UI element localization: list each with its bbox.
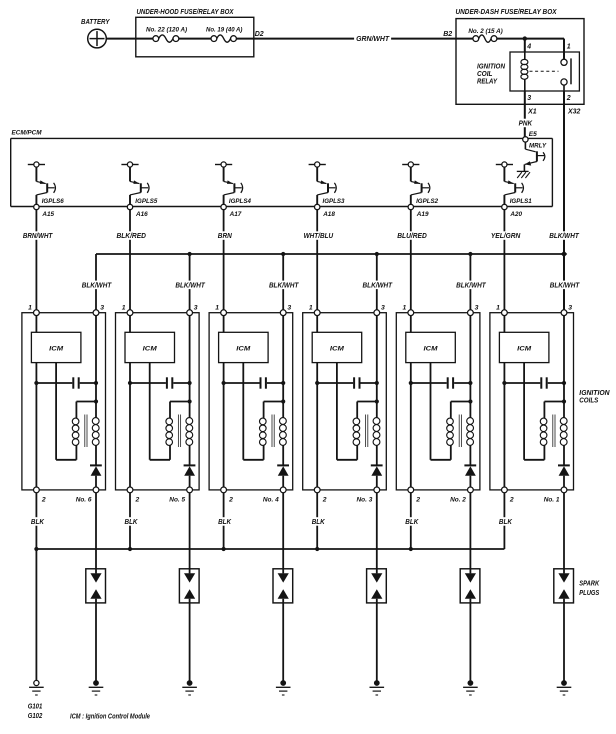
junction capacitor left (unit 3)	[315, 381, 319, 385]
wire A18 to coil No.3 pin 1, WHT/BLU	[316, 210, 318, 310]
capacitor C1	[504, 377, 564, 388]
wire secondary to diode (unit 5)	[189, 445, 191, 464]
svg-text:BLK/WHT: BLK/WHT	[456, 280, 487, 289]
svg-text:No. 22 (120 A): No. 22 (120 A)	[146, 27, 187, 34]
wire label BLK	[29, 517, 46, 526]
svg-text:A20: A20	[509, 211, 522, 218]
wire secondary to diode (unit 1)	[563, 445, 565, 464]
svg-text:RELAY: RELAY	[477, 79, 498, 86]
transformer secondary winding (unit 1)	[560, 418, 567, 446]
relay pin 4	[526, 43, 531, 50]
wire ICM output to primary (unit 4)	[243, 363, 263, 460]
svg-text:BLK: BLK	[218, 517, 231, 526]
junction primary/secondary split (unit 2)	[468, 399, 472, 403]
junction capacitor right (unit 3)	[375, 381, 379, 385]
svg-text:No. 1: No. 1	[544, 497, 560, 504]
coil pin No. 1 (unit 1)	[544, 487, 567, 504]
wire spark plug to ground (cyl 1)	[563, 599, 565, 683]
junction node	[523, 36, 527, 40]
BLK/WHT bus wire	[96, 254, 564, 310]
transformer core (unit 6)	[85, 415, 87, 448]
diode D2	[464, 465, 476, 487]
relay contact	[561, 58, 571, 91]
svg-text:ICM: ICM	[143, 346, 157, 353]
wire ICM output to primary (unit 2)	[431, 363, 451, 460]
svg-text:IGPLS1: IGPLS1	[510, 198, 532, 205]
svg-text:2: 2	[415, 497, 420, 504]
coil pin 2 (unit 1)	[502, 487, 514, 504]
junction capacitor right (unit 5)	[188, 381, 192, 385]
wire secondary to diode (unit 3)	[376, 445, 378, 464]
wire pin3 feed (unit 1)	[563, 316, 565, 418]
wire BLK/WHT drop to coil No.3 pin 3	[375, 252, 379, 310]
svg-text:YEL/GRN: YEL/GRN	[491, 231, 521, 240]
wire pin3 feed (unit 3)	[376, 316, 378, 418]
svg-text:4: 4	[526, 43, 531, 50]
wire pin1 to ICM and pin2 (unit 4)	[223, 316, 225, 487]
svg-text:BLK: BLK	[31, 517, 44, 526]
wire pin3 feed (unit 2)	[469, 316, 471, 418]
wire BLK/WHT drop to coil No.2 pin 3	[468, 252, 472, 310]
wire split to primary top (unit 2)	[451, 402, 471, 419]
svg-text:No. 2: No. 2	[450, 497, 466, 504]
wire pin1 to ICM and pin2 (unit 3)	[316, 316, 318, 487]
wire coil pin2 to BLK bus, BLK (unit 3)	[316, 493, 318, 549]
wire label BLU/RED	[395, 231, 429, 240]
svg-text:2: 2	[228, 497, 233, 504]
ICM module (unit 6)	[31, 332, 81, 362]
wire spark plug to ground (cyl 3)	[376, 599, 378, 683]
wire label BLK	[403, 517, 420, 526]
transformer primary winding (unit 6)	[72, 418, 79, 445]
svg-text:2: 2	[509, 497, 514, 504]
svg-text:1: 1	[309, 304, 313, 311]
wire bus to ground G101/G102	[35, 549, 37, 680]
connector X1	[527, 109, 537, 116]
wire pin3 feed (unit 5)	[189, 316, 191, 418]
coil pin 1 (unit 3)	[309, 304, 320, 315]
svg-text:IGPLS5: IGPLS5	[135, 198, 157, 205]
coil pin No. 2 (unit 2)	[450, 487, 473, 504]
battery	[81, 19, 111, 48]
svg-text:E5: E5	[529, 131, 537, 138]
svg-text:No. 19 (40 A): No. 19 (40 A)	[206, 27, 242, 34]
ignition coil unit No.3 box	[303, 313, 387, 490]
wire fuse to relay pins	[497, 39, 564, 60]
svg-text:A19: A19	[416, 211, 429, 218]
wire relay pin2 to ignition coils, BLK/WHT	[563, 91, 565, 313]
svg-text:1: 1	[122, 304, 126, 311]
svg-text:PNK: PNK	[519, 118, 533, 127]
svg-text:1: 1	[215, 304, 219, 311]
junction capacitor left (unit 4)	[222, 381, 226, 385]
label G102	[28, 711, 43, 720]
spark plug (cyl 4)	[273, 569, 293, 603]
svg-text:BLK: BLK	[499, 517, 512, 526]
svg-text:ICM: ICM	[49, 346, 63, 353]
svg-text:IGNITION: IGNITION	[579, 390, 610, 397]
diode D5	[184, 465, 196, 487]
node A16 (ECM pin)	[127, 204, 148, 218]
svg-text:A15: A15	[41, 211, 54, 218]
relay pin 2	[566, 95, 571, 102]
under-dash fuse/relay box	[456, 9, 585, 104]
wire coil pin2 to BLK bus, BLK (unit 5)	[129, 493, 131, 549]
coil pin 1 (unit 4)	[215, 304, 226, 315]
svg-text:1: 1	[567, 43, 571, 50]
wire coil No.3 output to spark plug	[376, 493, 378, 574]
svg-text:2: 2	[41, 497, 46, 504]
junction BLK bus	[128, 547, 132, 551]
transistor IGPLS4	[215, 162, 251, 205]
transformer primary winding (unit 4)	[260, 418, 267, 445]
wire pin1 to ICM and pin2 (unit 6)	[35, 316, 37, 487]
svg-text:BLK/RED: BLK/RED	[116, 231, 146, 240]
svg-text:BLK/WHT: BLK/WHT	[549, 231, 580, 240]
wire coil No.1 output to spark plug	[563, 493, 565, 574]
wire ICM output to primary (unit 5)	[150, 363, 170, 460]
junction primary/secondary split (unit 3)	[375, 399, 379, 403]
junction capacitor left (unit 2)	[409, 381, 413, 385]
svg-text:G101: G101	[28, 702, 43, 711]
junction primary/secondary split (unit 1)	[562, 399, 566, 403]
ground (spark plug cyl 2)	[463, 680, 478, 695]
wire BLK/WHT drop to coil No.4 pin 3	[281, 252, 285, 310]
connector X32	[567, 109, 581, 116]
junction capacitor right (unit 2)	[468, 381, 472, 385]
node A18 (ECM pin)	[315, 204, 336, 218]
ignition coil unit No.4 box	[209, 313, 293, 490]
transformer secondary winding (unit 3)	[373, 418, 380, 446]
wire coil No.5 output to spark plug	[189, 493, 191, 574]
coil pin 1 (unit 5)	[122, 304, 133, 315]
svg-text:A16: A16	[135, 211, 148, 218]
junction primary/secondary split (unit 5)	[188, 399, 192, 403]
coil pin 1 (unit 1)	[496, 304, 507, 315]
junction capacitor right (unit 6)	[94, 381, 98, 385]
wire label BLK	[123, 517, 140, 526]
wire label BLK	[497, 517, 514, 526]
transformer secondary winding (unit 4)	[280, 418, 287, 446]
svg-text:D2: D2	[255, 31, 264, 38]
wire A20 to coil No.1 pin 1, YEL/GRN	[503, 210, 505, 310]
transistor IGPLS5	[121, 162, 157, 205]
svg-text:IGPLS3: IGPLS3	[323, 198, 345, 205]
ICM module (unit 3)	[312, 332, 362, 362]
junction (bus to X32 wire)	[561, 251, 567, 257]
diode D4	[277, 465, 289, 487]
wire pin1 to ICM and pin2 (unit 1)	[503, 316, 505, 487]
node A19 (ECM pin)	[408, 204, 429, 218]
wire spark plug to ground (cyl 5)	[189, 599, 191, 683]
wire D2 to B2, GRN/WHT	[236, 38, 456, 40]
spark plug (cyl 6)	[86, 569, 106, 603]
coil pin No. 5 (unit 5)	[169, 487, 192, 504]
ICM module (unit 5)	[125, 332, 175, 362]
coil pin No. 3 (unit 3)	[357, 487, 380, 504]
spark plug (cyl 3)	[367, 569, 387, 603]
svg-text:BRN: BRN	[218, 231, 233, 240]
svg-text:1: 1	[403, 304, 407, 311]
wire spark plug to ground (cyl 2)	[469, 599, 471, 683]
wire battery to under-hood box	[106, 38, 153, 40]
label IGNITION COILS	[579, 390, 610, 404]
svg-text:BRN/WHT: BRN/WHT	[23, 231, 54, 240]
svg-text:COILS: COILS	[579, 398, 598, 405]
junction capacitor left (unit 6)	[34, 381, 38, 385]
spark plug (cyl 1)	[554, 569, 574, 603]
wire pin1 to ICM and pin2 (unit 2)	[410, 316, 412, 487]
wire secondary to diode (unit 6)	[95, 445, 97, 464]
capacitor C5	[130, 377, 190, 388]
transformer core (unit 1)	[553, 415, 555, 448]
capacitor C6	[36, 377, 96, 388]
transformer primary winding (unit 1)	[540, 418, 547, 445]
svg-text:BLU/RED: BLU/RED	[397, 231, 427, 240]
wire coil No.2 output to spark plug	[469, 493, 471, 574]
wire spark plug to ground (cyl 4)	[282, 599, 284, 683]
coil pin 1 (unit 6)	[28, 304, 39, 315]
transformer secondary winding (unit 6)	[92, 418, 99, 446]
ICM module (unit 2)	[406, 332, 456, 362]
svg-text:3: 3	[287, 304, 291, 311]
relay actuation dashed link	[530, 70, 559, 72]
svg-text:ICM: ICM	[236, 346, 250, 353]
wire label PNK	[517, 118, 535, 127]
ground (MRLY chassis)	[517, 171, 530, 178]
wire ICM output to primary (unit 1)	[524, 363, 544, 460]
wire into No.2 fuse	[456, 38, 473, 40]
svg-text:IGPLS6: IGPLS6	[42, 198, 64, 205]
wire label BLK/RED	[114, 231, 147, 240]
diode D3	[371, 465, 383, 487]
fuse No.22 (120 A)	[146, 27, 187, 43]
wire pin3 feed (unit 4)	[282, 316, 284, 418]
svg-text:BLK: BLK	[125, 517, 138, 526]
transformer secondary winding (unit 2)	[467, 418, 474, 446]
spark plug (cyl 5)	[179, 569, 199, 603]
svg-text:WHT/BLU: WHT/BLU	[304, 231, 334, 240]
coil pin 3 (unit 3)	[374, 304, 385, 315]
transistor IGPLS1	[496, 162, 532, 205]
diode D1	[558, 465, 570, 487]
svg-text:No. 4: No. 4	[263, 497, 279, 504]
wire label BLK/WHT	[173, 280, 207, 289]
wire ICM output to primary (unit 3)	[337, 363, 357, 460]
svg-text:BLK/WHT: BLK/WHT	[175, 280, 206, 289]
ignition coil unit No.5 box	[116, 313, 200, 490]
svg-text:A18: A18	[322, 211, 335, 218]
wire secondary to diode (unit 4)	[282, 445, 284, 464]
wire coil pin2 to BLK bus, BLK (unit 2)	[410, 493, 412, 549]
ground (spark plug cyl 1)	[557, 680, 572, 695]
svg-text:No. 5: No. 5	[169, 497, 185, 504]
transformer primary winding (unit 3)	[353, 418, 360, 445]
wire pin1 to ICM and pin2 (unit 5)	[129, 316, 131, 487]
wire A17 to coil No.4 pin 1, BRN	[223, 210, 225, 310]
legend ICM	[70, 713, 150, 720]
wire label BLK/WHT	[267, 280, 301, 289]
wire label BLK/WHT (from X32)	[547, 231, 581, 240]
transformer core (unit 5)	[178, 415, 180, 448]
svg-text:GRN/WHT: GRN/WHT	[356, 34, 390, 43]
coil pin 2 (unit 5)	[127, 487, 139, 504]
ground (spark plug cyl 3)	[370, 680, 385, 695]
under-hood fuse/relay box	[136, 9, 254, 57]
svg-text:ICM: ICM	[424, 346, 438, 353]
wire coil pin2 to BLK bus, BLK (unit 1)	[503, 493, 505, 549]
svg-text:BLK/WHT: BLK/WHT	[363, 280, 394, 289]
transformer core (unit 4)	[272, 415, 274, 448]
coil pin 3 (unit 2)	[468, 304, 479, 315]
ignition coil unit No.1 box	[490, 313, 574, 490]
svg-text:BLK: BLK	[405, 517, 418, 526]
svg-text:ICM : Ignition Control Module: ICM : Ignition Control Module	[70, 713, 150, 720]
wire pin3 feed (unit 6)	[95, 316, 97, 418]
svg-text:No. 2 (15 A): No. 2 (15 A)	[468, 28, 502, 35]
junction primary/secondary split (unit 4)	[281, 399, 285, 403]
svg-text:UNDER-DASH FUSE/RELAY BOX: UNDER-DASH FUSE/RELAY BOX	[456, 9, 558, 16]
coil pin 2 (unit 4)	[221, 487, 233, 504]
svg-text:ICM: ICM	[517, 346, 531, 353]
node E5	[523, 131, 537, 142]
wire coil No.4 output to spark plug	[282, 493, 284, 574]
svg-text:ICM: ICM	[330, 346, 344, 353]
transformer core (unit 2)	[459, 415, 461, 448]
connector B2	[443, 31, 452, 38]
ground (spark plug cyl 5)	[182, 680, 197, 695]
wire label YEL/GRN	[489, 231, 523, 240]
spark plug (cyl 2)	[460, 569, 480, 603]
wire split to primary top (unit 3)	[357, 402, 377, 419]
fuse No.19 (40 A)	[206, 27, 242, 43]
wire BLK/WHT drop to coil No.5 pin 3	[188, 252, 192, 310]
junction primary/secondary split (unit 6)	[94, 399, 98, 403]
coil pin 2 (unit 2)	[408, 487, 420, 504]
wire spark plug to ground (cyl 6)	[95, 599, 97, 683]
coil pin 3 (unit 1)	[561, 304, 572, 315]
transistor IGPLS2	[402, 162, 438, 205]
svg-text:3: 3	[475, 304, 479, 311]
coil pin No. 4 (unit 4)	[263, 487, 286, 504]
svg-text:ECM/PCM: ECM/PCM	[12, 130, 42, 137]
svg-text:BLK/WHT: BLK/WHT	[550, 280, 581, 289]
wire split to primary top (unit 4)	[264, 402, 284, 419]
svg-text:BATTERY: BATTERY	[81, 19, 111, 26]
wire A16 to coil No.5 pin 1, BLK/RED	[129, 210, 131, 310]
transformer core (unit 3)	[366, 415, 368, 448]
ignition coil unit No.2 box	[396, 313, 480, 490]
svg-text:2: 2	[566, 95, 571, 102]
svg-text:X1: X1	[527, 109, 537, 116]
svg-text:A17: A17	[229, 211, 243, 218]
transformer secondary winding (unit 5)	[186, 418, 193, 446]
svg-text:No. 6: No. 6	[76, 497, 92, 504]
wire label BLK	[216, 517, 233, 526]
wire label BLK/WHT	[361, 280, 395, 289]
svg-text:3: 3	[568, 304, 572, 311]
ECM/PCM box	[11, 130, 553, 207]
svg-text:3: 3	[100, 304, 104, 311]
wire coil No.6 output to spark plug	[95, 493, 97, 574]
junction capacitor left (unit 1)	[502, 381, 506, 385]
wire split to primary top (unit 5)	[170, 402, 190, 419]
label G101	[28, 702, 43, 711]
junction capacitor right (unit 4)	[281, 381, 285, 385]
node A20 (ECM pin)	[502, 204, 523, 218]
wire label BRN/WHT	[21, 231, 55, 240]
svg-text:SPARK: SPARK	[579, 581, 600, 588]
svg-text:1: 1	[28, 304, 32, 311]
relay pin 3	[527, 95, 531, 102]
relay coil	[521, 52, 528, 91]
junction BLK bus	[409, 547, 413, 551]
svg-text:No. 3: No. 3	[357, 497, 373, 504]
coil pin 3 (unit 4)	[280, 304, 291, 315]
coil pin No. 6 (unit 6)	[76, 487, 99, 504]
svg-text:3: 3	[194, 304, 198, 311]
BLK ground bus wire	[36, 548, 504, 550]
connector D2	[255, 31, 264, 38]
wire split to primary top (unit 6)	[76, 402, 96, 419]
relay pin 1	[567, 43, 571, 50]
svg-text:BLK/WHT: BLK/WHT	[82, 280, 113, 289]
ground (spark plug cyl 6)	[89, 680, 104, 695]
ICM module (unit 4)	[219, 332, 269, 362]
wire label BLK	[310, 517, 327, 526]
coil pin 3 (unit 5)	[187, 304, 198, 315]
svg-text:1: 1	[496, 304, 500, 311]
wire label WHT/BLU	[302, 231, 336, 240]
wire split to primary top (unit 1)	[544, 402, 564, 419]
wire A15 to coil No.6 pin 1, BRN/WHT	[35, 210, 37, 310]
wire A19 to coil No.2 pin 1, BLU/RED	[410, 210, 412, 310]
transistor IGPLS3	[309, 162, 345, 205]
svg-text:PLUGS: PLUGS	[579, 590, 599, 597]
coil pin 1 (unit 2)	[403, 304, 414, 315]
junction capacitor right (unit 1)	[562, 381, 566, 385]
label SPARK PLUGS	[579, 581, 600, 597]
coil pin 2 (unit 3)	[314, 487, 326, 504]
ground G101/G102	[29, 680, 44, 695]
wire secondary to diode (unit 2)	[469, 445, 471, 464]
fuse No.2 (15 A)	[468, 28, 502, 42]
wire coil pin2 to BLK bus, BLK (unit 6)	[35, 493, 37, 549]
transistor IGPLS6	[28, 162, 64, 205]
junction capacitor left (unit 5)	[128, 381, 132, 385]
svg-text:2: 2	[135, 497, 140, 504]
svg-text:IGNITION: IGNITION	[477, 63, 506, 70]
svg-text:BLK: BLK	[312, 517, 325, 526]
coil pin 3 (unit 6)	[93, 304, 104, 315]
node A15 (ECM pin)	[34, 204, 55, 218]
wire coil pin2 to BLK bus, BLK (unit 4)	[223, 493, 225, 549]
capacitor C3	[317, 377, 377, 388]
wire label BLK/WHT	[454, 280, 488, 289]
wire label BLK/WHT	[548, 280, 582, 289]
junction BLK bus	[222, 547, 226, 551]
capacitor C4	[224, 377, 284, 388]
svg-text:MRLY: MRLY	[529, 143, 547, 150]
diode D6	[90, 465, 102, 487]
junction BLK bus	[315, 547, 319, 551]
wire between fuses	[179, 38, 211, 40]
ICM module (unit 1)	[499, 332, 549, 362]
svg-text:IGPLS4: IGPLS4	[229, 198, 251, 205]
svg-text:UNDER-HOOD FUSE/RELAY BOX: UNDER-HOOD FUSE/RELAY BOX	[137, 9, 235, 16]
svg-text:3: 3	[527, 95, 531, 102]
coil pin 2 (unit 6)	[34, 487, 46, 504]
